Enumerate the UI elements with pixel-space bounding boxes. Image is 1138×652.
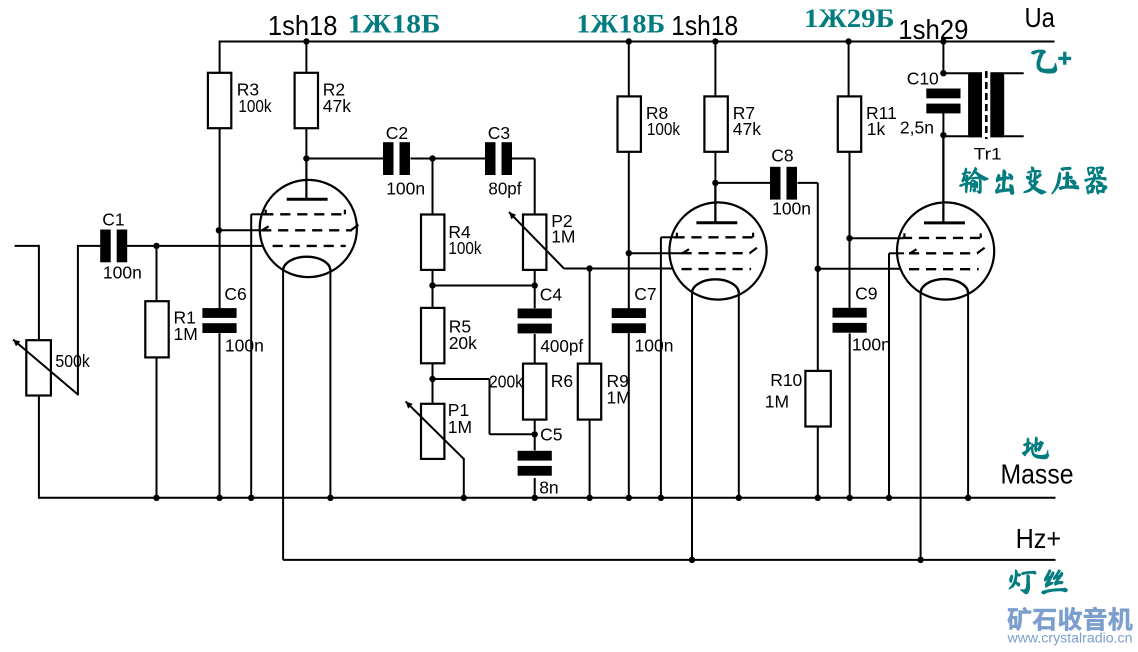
- svg-text:1Ж29Б: 1Ж29Б: [804, 4, 895, 33]
- watermark 矿石收音机: [1008, 607, 1133, 631]
- wire: C10 node to plate V3: [942, 113, 944, 223]
- svg-text:47k: 47k: [733, 119, 761, 139]
- svg-text:1M: 1M: [607, 388, 631, 408]
- node: ground x=534.7: [532, 495, 538, 501]
- wire: wiper to C1: [77, 245, 101, 247]
- svg-text:Ua: Ua: [1025, 2, 1056, 33]
- wire: C5 bottom to ground: [534, 478, 536, 498]
- wire: V3 left filament leg: [920, 293, 922, 560]
- capacitor C1: [100, 230, 111, 263]
- potentiometer P1 body: [421, 404, 444, 459]
- wire: R8 bottom to C7: [628, 152, 630, 309]
- svg-text:C6: C6: [224, 284, 246, 304]
- svg-text:100k: 100k: [647, 119, 680, 139]
- node: ground x=738.8: [736, 495, 742, 501]
- svg-text:1Ж18Б: 1Ж18Б: [576, 9, 665, 38]
- capacitor C7: [612, 308, 646, 318]
- tube V1 (1sh18 pentode): [260, 180, 357, 277]
- wire: V2 right filament leg: [738, 293, 740, 498]
- wire: ground rail (Masse): [39, 497, 1056, 499]
- svg-text:100n: 100n: [772, 199, 811, 219]
- wire: C7 bottom to ground: [628, 333, 630, 498]
- resistor R2: [295, 73, 318, 128]
- transformer Tr1 secondary winding: [990, 72, 1004, 137]
- wire: R3 bottom to C6: [219, 128, 221, 308]
- node: C2/R4/C3: [429, 155, 435, 161]
- svg-text:100n: 100n: [386, 178, 425, 198]
- node: rail-R2: [303, 38, 309, 44]
- capacitor C3: [485, 142, 496, 175]
- resistor R7: [704, 96, 727, 151]
- resistor R5: [421, 308, 444, 363]
- svg-text:1M: 1M: [448, 417, 472, 437]
- transformer Tr1 secondary leads: [1004, 72, 1024, 74]
- svg-text:C2: C2: [386, 123, 408, 143]
- svg-text:Hz+: Hz+: [1016, 523, 1062, 554]
- resistor R8: [618, 96, 641, 151]
- wire: pot bottom to ground: [38, 396, 40, 499]
- svg-text:80pf: 80pf: [488, 178, 521, 198]
- node: ground x=849.6: [846, 495, 852, 501]
- node: rail-R7: [712, 38, 718, 44]
- label 灯丝 (filament): [1009, 570, 1067, 594]
- svg-text:C4: C4: [540, 284, 563, 304]
- wire: plate V1 to C2: [306, 158, 385, 160]
- node: Hz+ V3: [917, 557, 923, 563]
- wire: C4 to R6: [534, 334, 536, 364]
- svg-text:C1: C1: [102, 209, 124, 229]
- wire: P2 bottom to C4: [534, 270, 536, 308]
- capacitor C9: [833, 308, 867, 318]
- svg-text:1sh29: 1sh29: [898, 14, 968, 45]
- svg-text:1M: 1M: [765, 392, 789, 412]
- node: R9 top: [586, 265, 592, 271]
- potentiometer P2 wiper arrow: [509, 212, 564, 269]
- wire: C8 to V3 grid line: [798, 182, 818, 184]
- potentiometer P1 wiper arrow: [406, 402, 464, 459]
- wire: R4-P2 link: [433, 285, 535, 287]
- svg-text:500k: 500k: [55, 351, 90, 371]
- wire: P1 wiper to ground: [463, 458, 465, 498]
- node: C10 bottom: [940, 132, 946, 138]
- wire: P2 wiper to V2 grid: [564, 268, 673, 270]
- node: ground x=817.8: [815, 495, 821, 501]
- wire: R11 bottom to C9: [849, 152, 851, 309]
- wire: R3 top to rail: [219, 41, 221, 73]
- svg-text:www.crystalradio.cn: www.crystalradio.cn: [1007, 631, 1133, 647]
- transformer Tr1 primary link bottom: [943, 135, 968, 137]
- wire: C2 to C3: [411, 158, 488, 160]
- tube V2 (1sh18 pentode): [669, 202, 766, 299]
- node: C10 top: [940, 70, 946, 76]
- wire: R2 bottom to plate node: [305, 128, 307, 158]
- resistor R10: [805, 371, 830, 427]
- wire: screen grid lead: [219, 229, 261, 231]
- node: P2 bottom: [532, 282, 538, 288]
- node: ground x=628.8: [626, 495, 632, 501]
- wire: R8 top: [628, 42, 630, 97]
- resistor R9: [578, 364, 601, 420]
- svg-text:C7: C7: [634, 284, 656, 304]
- node: plate V2 / C8: [712, 180, 718, 186]
- wire: C1 to grid junction: [127, 245, 263, 247]
- svg-text:8n: 8n: [539, 477, 558, 497]
- svg-text:100n: 100n: [635, 336, 674, 356]
- resistor R6: [523, 364, 546, 420]
- wire: plate node to C8: [715, 182, 771, 184]
- wire: Hz+ rail: [283, 559, 1055, 561]
- svg-text:1M: 1M: [551, 227, 575, 247]
- capacitor C10: [926, 89, 960, 99]
- wire: V3 top grid lead: [850, 237, 904, 239]
- svg-text:100n: 100n: [103, 263, 142, 283]
- node: ground x=219.5: [216, 495, 222, 501]
- resistor R4: [421, 215, 444, 270]
- wire: V3 mid-grid bend: [889, 252, 904, 254]
- svg-text:C9: C9: [855, 284, 877, 304]
- wire: R5 bottom: [432, 363, 434, 404]
- node: rail-R11: [845, 38, 851, 44]
- svg-text:C8: C8: [771, 146, 793, 166]
- node: plate V1 / C2: [303, 155, 309, 161]
- wire: V1 right filament leg: [329, 271, 331, 498]
- label 地 (ground): [1022, 437, 1048, 459]
- wire: R9 bottom to ground: [589, 420, 591, 498]
- node: R5/P1/200k tap: [429, 376, 435, 382]
- svg-text:20k: 20k: [449, 333, 477, 353]
- wire: V2 grid lead: [629, 252, 683, 254]
- wire: C6 bottom to ground: [219, 333, 221, 498]
- svg-text:1sh18: 1sh18: [671, 10, 738, 41]
- wire: R4 bottom to junction: [432, 270, 434, 308]
- transformer Tr1 primary winding: [968, 72, 982, 137]
- tube V3 (1sh29 pentode): [897, 202, 994, 299]
- svg-text:200k: 200k: [489, 372, 523, 392]
- wire: V1 top-grid bend: [251, 213, 266, 215]
- wire: R7 top: [714, 42, 716, 97]
- capacitor C6: [202, 308, 236, 318]
- node: R3/screen-grid: [216, 227, 222, 233]
- wire: R9 drop: [589, 269, 591, 364]
- wire: R4 top: [432, 159, 434, 215]
- wire: tap to C5 elbow: [433, 378, 490, 380]
- wire: R2 top to rail: [305, 42, 307, 73]
- node: ground x=463.8: [461, 495, 467, 501]
- node: ground x=968.1: [965, 495, 971, 501]
- node: ground x=589.6: [586, 495, 592, 501]
- node: C8/V3 grid: [815, 266, 821, 272]
- wire: V3 right filament leg: [967, 293, 969, 498]
- svg-text:100n: 100n: [852, 335, 891, 355]
- svg-text:400pf: 400pf: [540, 336, 583, 356]
- node: rail-R8: [626, 38, 632, 44]
- node: ground x=660.9: [658, 495, 664, 501]
- svg-text:Masse: Masse: [1001, 459, 1074, 490]
- node: ground x=889.0: [886, 495, 892, 501]
- wire: R6 bottom to C5: [534, 420, 536, 451]
- svg-text:C3: C3: [488, 123, 510, 143]
- resistor R1: [145, 301, 168, 357]
- svg-text:100k: 100k: [238, 96, 271, 116]
- wire: R7 bottom to plate node: [714, 152, 716, 223]
- wire: R11 top: [848, 42, 850, 97]
- node: ground x=156.5: [153, 495, 159, 501]
- svg-text:R6: R6: [551, 371, 573, 391]
- capacitor C2: [383, 142, 394, 175]
- svg-text:1sh18: 1sh18: [268, 10, 338, 41]
- wire: C8 node to V3 grid: [818, 268, 901, 270]
- capacitor C8: [770, 167, 781, 200]
- svg-text:100k: 100k: [448, 238, 481, 258]
- node: rail-C10: [940, 38, 946, 44]
- label + (B+): [1058, 52, 1071, 65]
- svg-text:R10: R10: [770, 370, 802, 390]
- transformer Tr1 core: [985, 71, 988, 139]
- svg-text:2,5n: 2,5n: [900, 118, 934, 138]
- svg-text:100n: 100n: [225, 335, 264, 355]
- wire: Ua top supply rail: [219, 41, 1054, 43]
- potentiometer P2 body: [523, 215, 546, 270]
- svg-text:47k: 47k: [323, 96, 351, 116]
- wire: rail to C10 node: [942, 42, 944, 74]
- node: R11/V3 grid: [846, 235, 852, 241]
- svg-text:1M: 1M: [174, 324, 198, 344]
- transformer Tr1 primary link top: [943, 72, 968, 74]
- node: ground x=330.4: [327, 495, 333, 501]
- wire: R10 bottom to ground: [817, 427, 819, 498]
- wire: V1 left filament leg: [282, 271, 284, 560]
- svg-text:C5: C5: [540, 425, 562, 445]
- svg-text:1k: 1k: [867, 119, 886, 139]
- svg-text:1Ж18Б: 1Ж18Б: [348, 10, 441, 39]
- label 输出变压器 (output transformer): [959, 167, 1107, 195]
- resistor R11: [838, 96, 861, 151]
- node: R4/P2 link left: [429, 282, 435, 288]
- wire: R1 bottom to ground: [156, 357, 158, 497]
- capacitor C4: [518, 309, 552, 319]
- node: ground x=251.2: [248, 495, 254, 501]
- svg-text:C10: C10: [907, 69, 939, 89]
- wire: R1 top: [156, 246, 158, 301]
- node: C5 top: [532, 431, 538, 437]
- wire: wiper riser: [77, 246, 79, 396]
- wire: C9 bottom to ground: [849, 333, 851, 497]
- node: R8/V2 grid: [626, 250, 632, 256]
- resistor R3: [208, 73, 231, 128]
- potentiometer 500k body: [26, 340, 51, 395]
- wire: C3 to P2: [512, 158, 535, 160]
- wire: V2 top-grid bend: [661, 236, 677, 238]
- wire: V2 left filament leg: [691, 293, 693, 560]
- capacitor C5: [518, 451, 552, 461]
- wire: input stub: [15, 245, 39, 247]
- wire: input down to pot: [38, 245, 40, 340]
- svg-text:Tr1: Tr1: [974, 145, 1002, 164]
- potentiometer 500k wiper arrow: [13, 340, 78, 395]
- node: C1/R1/grid: [153, 243, 159, 249]
- node: Hz+ V2: [689, 557, 695, 563]
- label 乙 (B+): [1031, 50, 1056, 73]
